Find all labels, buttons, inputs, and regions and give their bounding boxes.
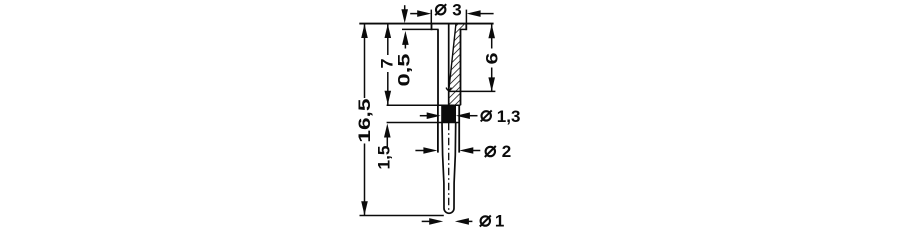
dim 7 bottom arrow [385,91,392,105]
tube outer left wall [437,29,439,105]
dim O1 text [480,216,491,227]
tube outer right wall [460,29,462,105]
knurl bottom edge with extension line [387,122,460,124]
dim O2 left line [415,150,425,152]
svg-text:3: 3 [452,0,461,19]
centerline dash-dot [448,123,450,212]
dim 16,5 bottom arrow [361,201,368,215]
svg-text:2: 2 [502,142,511,161]
flange bottom right segment [460,28,467,30]
dim 16,5 top arrow [361,24,368,38]
dim O2 left arrow [423,147,437,154]
dim O3 left extension [430,10,432,24]
dim O1,3 right line [468,115,478,117]
dim 0,5 upper arrow line [404,5,406,11]
dim 0,5 lower arrow [402,31,409,45]
bore bottom extension line [448,90,495,92]
dim O3 left arrow [417,10,431,17]
dim 16,5 line [364,24,366,98]
dim O2 right line [471,150,480,152]
dim O2 right arrow [459,147,473,154]
dim O1,3 left arrow [427,112,441,119]
knurl zone black square [441,105,456,122]
tip bottom extension line [360,215,444,217]
dim O3 left line [410,13,419,15]
svg-text:1,5: 1,5 [374,146,393,170]
dim 1,5 arrow [384,124,391,138]
dim O1,3 left line [420,115,429,117]
dim O3 right extension [465,10,467,24]
pin inner left line to tip [442,122,456,213]
dim 7 line [387,24,389,55]
flange left edge [431,24,433,31]
flange right edge [465,24,467,31]
dim O1 left line [422,220,432,222]
dim O1,3 text [481,110,492,121]
dim O1 right line [467,220,473,222]
svg-text:0,5: 0,5 [394,54,413,87]
knurl top edge with extension line [387,104,461,106]
shaft outer right line [458,105,460,152]
dim 6 line [491,24,493,48]
bore taper line [449,24,456,88]
dim O3 right line [479,13,494,15]
svg-text:6: 6 [483,53,502,65]
dim O1,3 right arrow [456,112,470,119]
section hatch right wall [449,24,467,105]
shaft outer left line [437,105,439,152]
dim O2 text [485,146,496,157]
dim 0,5 lower arrow line [404,44,406,49]
dim 7 top arrow [385,24,392,38]
bore bottom arc [446,88,451,91]
top surface extension line [359,23,493,25]
dim 6 bottom arrow [488,77,495,91]
svg-text:1,3: 1,3 [497,107,521,126]
svg-text:16,5: 16,5 [355,99,374,143]
svg-text:1: 1 [495,212,504,229]
dim O3 right arrow [467,10,481,17]
dim 6 top arrow [488,24,495,38]
dim 0,5 upper arrow [401,9,408,23]
bore cut edge at centerline [448,24,450,105]
dim O1 right arrow [455,218,469,225]
dim 1,5 arrow line [386,136,388,148]
dim O1 left arrow [429,218,443,225]
dim O3 text [435,4,446,15]
flange bottom left segment with extension [402,28,439,30]
